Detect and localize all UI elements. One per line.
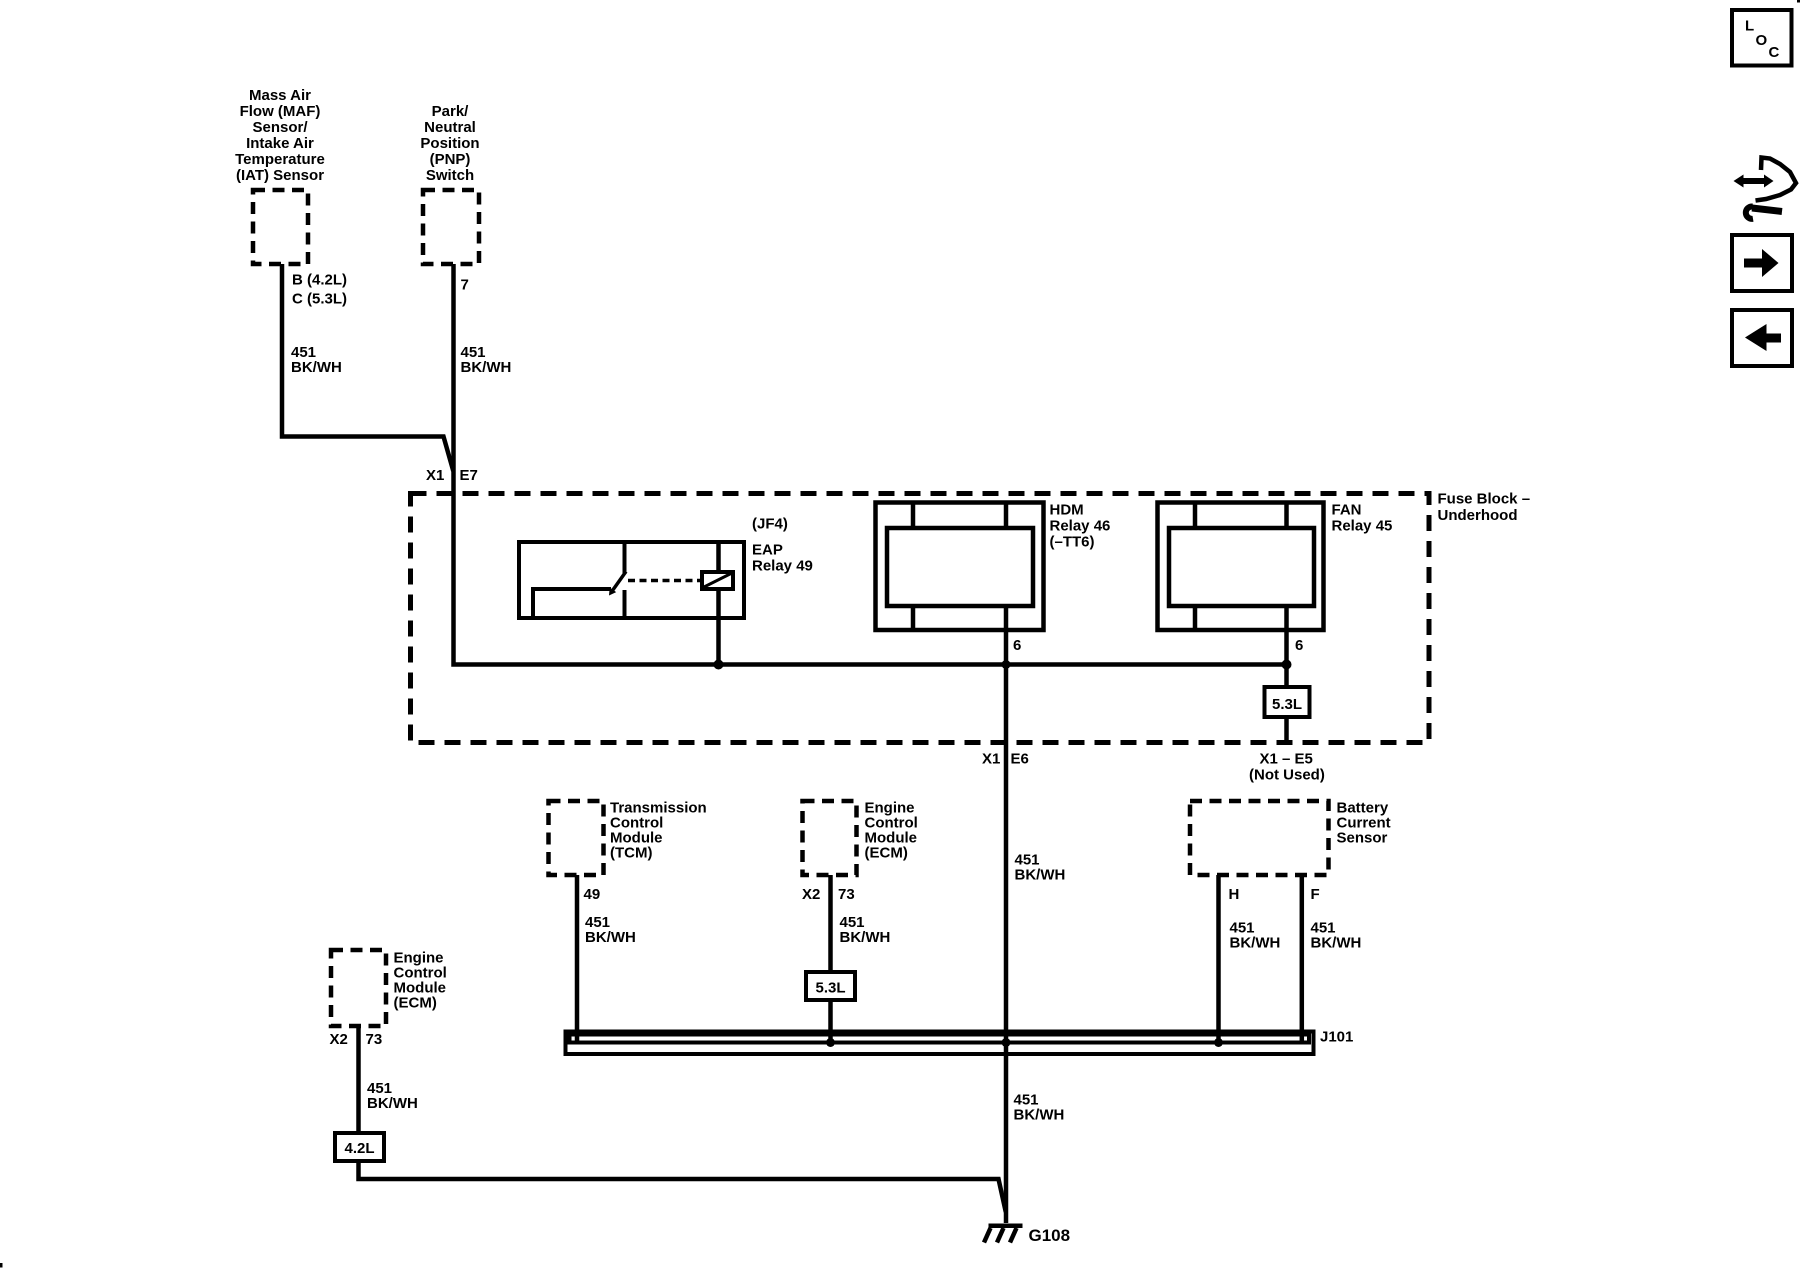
svg-text:J101: J101 <box>1320 1029 1353 1046</box>
svg-text:BK/WH: BK/WH <box>585 929 636 946</box>
relay label HDM Relay 46 (-TT6) <box>1050 502 1111 551</box>
wire battery sensor pin F to J101 <box>1300 875 1305 1043</box>
junction dot ECM at J101 <box>826 1038 835 1047</box>
ground G108 <box>984 1226 1023 1243</box>
svg-text:(Not Used): (Not Used) <box>1249 767 1325 784</box>
splice pack J101 <box>566 1032 1314 1055</box>
ECM dashed box (middle) <box>803 801 857 875</box>
svg-text:Relay 45: Relay 45 <box>1332 518 1393 535</box>
svg-text:(ECM): (ECM) <box>394 995 437 1012</box>
LOC icon box <box>1732 10 1792 66</box>
svg-text:F: F <box>1311 886 1320 903</box>
svg-text:(TCM): (TCM) <box>610 845 652 862</box>
value box 5.3L (fuse block) <box>1265 687 1310 717</box>
pin label X2 73 (middle ECM) <box>802 886 855 903</box>
svg-text:Sensor: Sensor <box>1337 830 1388 847</box>
wire label 451 BK/WH (MAF) <box>291 344 342 376</box>
wire battery sensor pin H to J101 <box>1216 875 1221 1043</box>
MAF/IAT sensor label <box>235 87 325 184</box>
svg-text:7: 7 <box>461 277 469 294</box>
value box 4.2L <box>335 1133 384 1161</box>
relay label (JF4) EAP Relay 49 <box>752 516 813 575</box>
junction dot EAP coil to bus <box>714 660 724 670</box>
svg-text:C: C <box>1769 44 1780 61</box>
wire label 451 BK/WH (H) <box>1230 920 1281 952</box>
svg-text:BK/WH: BK/WH <box>1015 867 1066 884</box>
svg-text:Mass Air: Mass Air <box>249 87 311 104</box>
svg-text:(JF4): (JF4) <box>752 516 788 533</box>
wire 5.3L to X1-E5 edge <box>1284 717 1289 742</box>
svg-text:O: O <box>1756 32 1768 49</box>
ECM dashed box (left) <box>331 950 386 1026</box>
svg-text:X2: X2 <box>330 1031 348 1048</box>
connector label X1 E7 <box>426 467 478 484</box>
wire ECM X2-73 to 5.3L <box>828 875 833 972</box>
wire FAN relay pin 6 to 5.3L <box>1284 606 1289 687</box>
svg-text:73: 73 <box>838 886 855 903</box>
svg-text:Relay 49: Relay 49 <box>752 558 813 575</box>
Battery Current Sensor label <box>1337 800 1391 847</box>
wire label 451 BK/WH (below J101) <box>1014 1092 1065 1124</box>
svg-text:EAP: EAP <box>752 542 783 559</box>
svg-text:(–TT6): (–TT6) <box>1050 534 1095 551</box>
page corner mark top right <box>1797 0 1800 3</box>
svg-text:B (4.2L): B (4.2L) <box>292 272 347 289</box>
wire TCM pin 49 to J101 <box>575 875 580 1043</box>
svg-text:Underhood: Underhood <box>1438 507 1518 524</box>
svg-text:(PNP): (PNP) <box>430 151 471 168</box>
svg-text:Switch: Switch <box>426 167 474 184</box>
wire 5.3L to J101 <box>828 1000 833 1043</box>
svg-text:5.3L: 5.3L <box>815 980 845 997</box>
relay FAN Relay 45 <box>1158 503 1324 631</box>
connector label X1 E6 <box>982 751 1029 768</box>
wire label 451 BK/WH (left ECM) <box>367 1080 418 1112</box>
PNP switch label <box>420 103 479 184</box>
TCM dashed box <box>549 801 604 875</box>
forward arrow icon box <box>1732 235 1792 291</box>
svg-text:BK/WH: BK/WH <box>367 1095 418 1112</box>
svg-text:X2: X2 <box>802 886 820 903</box>
back arrow icon box <box>1732 310 1792 366</box>
wire label 451 BK/WH (TCM) <box>585 914 636 946</box>
page corner mark bottom left <box>0 1263 3 1268</box>
svg-text:BK/WH: BK/WH <box>1311 935 1362 952</box>
relay HDM Relay 46 <box>876 503 1044 631</box>
ECM label (left) <box>394 950 447 1012</box>
wire 4.2L to ground node <box>359 1161 1006 1212</box>
svg-text:BK/WH: BK/WH <box>840 929 891 946</box>
svg-text:H: H <box>1229 886 1240 903</box>
wire label 451 BK/WH (main, below fuse block) <box>1015 852 1066 884</box>
junction dot HDM pin at bus <box>1002 660 1011 669</box>
value box 5.3L (ECM branch) <box>806 972 855 1000</box>
Fuse Block label <box>1438 491 1531 525</box>
svg-text:E6: E6 <box>1011 751 1029 768</box>
svg-text:BK/WH: BK/WH <box>291 359 342 376</box>
junction dot H at J101 <box>1214 1038 1223 1047</box>
pin label X2 73 (left ECM) <box>330 1031 383 1048</box>
svg-text:X1: X1 <box>426 467 444 484</box>
svg-text:6: 6 <box>1013 637 1021 654</box>
svg-text:5.3L: 5.3L <box>1272 696 1302 713</box>
junction dot main wire at J101 <box>1002 1038 1011 1047</box>
svg-text:73: 73 <box>366 1031 383 1048</box>
svg-text:FAN: FAN <box>1332 502 1362 519</box>
svg-text:HDM: HDM <box>1050 502 1084 519</box>
Fuse Block Underhood dashed box <box>411 494 1430 743</box>
svg-text:BK/WH: BK/WH <box>461 359 512 376</box>
relay EAP Relay 49 <box>519 542 744 665</box>
svg-text:Fuse Block –: Fuse Block – <box>1438 491 1531 508</box>
svg-text:X1 – E5: X1 – E5 <box>1260 751 1313 768</box>
MAF sensor dashed box <box>253 190 308 264</box>
svg-text:(ECM): (ECM) <box>865 845 908 862</box>
svg-text:G108: G108 <box>1029 1226 1071 1245</box>
svg-text:BK/WH: BK/WH <box>1230 935 1281 952</box>
svg-text:Relay 46: Relay 46 <box>1050 518 1111 535</box>
wire ECM left pin to 4.2L <box>356 1026 361 1133</box>
PNP switch dashed box <box>423 190 479 264</box>
svg-text:(IAT) Sensor: (IAT) Sensor <box>236 167 324 184</box>
wire HDM relay pin 6 down through X1 E6 to J101 and ground <box>1004 606 1009 1223</box>
svg-text:Sensor/: Sensor/ <box>252 119 308 136</box>
svg-text:E7: E7 <box>460 467 478 484</box>
svg-text:4.2L: 4.2L <box>344 1140 374 1157</box>
svg-text:Intake Air: Intake Air <box>246 135 314 152</box>
svg-text:C (5.3L): C (5.3L) <box>292 291 347 308</box>
ECM label (middle) <box>865 800 918 862</box>
TCM label <box>610 800 707 862</box>
pin label B (4.2L) / C (5.3L) <box>292 272 347 308</box>
connector label X1 - E5 (Not Used) <box>1249 751 1325 784</box>
svg-text:Position: Position <box>420 135 479 152</box>
harness/tools icon <box>1734 158 1797 219</box>
svg-text:L: L <box>1745 18 1754 35</box>
svg-text:49: 49 <box>584 886 601 903</box>
svg-text:6: 6 <box>1295 637 1303 654</box>
svg-text:Temperature: Temperature <box>235 151 325 168</box>
svg-text:X1: X1 <box>982 751 1000 768</box>
wire 451 BK/WH from MAF sensor <box>282 264 453 471</box>
Battery Current Sensor dashed box <box>1190 801 1329 875</box>
wire label 451 BK/WH (PNP) <box>461 344 512 376</box>
svg-text:Flow (MAF): Flow (MAF) <box>240 103 321 120</box>
svg-text:Neutral: Neutral <box>424 119 476 136</box>
junction dot FAN pin at bus <box>1282 660 1292 670</box>
wire label 451 BK/WH (F) <box>1311 920 1362 952</box>
relay label FAN Relay 45 <box>1332 502 1393 535</box>
svg-text:BK/WH: BK/WH <box>1014 1107 1065 1124</box>
wire label 451 BK/WH (middle ECM) <box>840 914 891 946</box>
wire 451 BK/WH from PNP switch down to fuse block bus <box>454 264 1287 665</box>
svg-text:Park/: Park/ <box>432 103 470 120</box>
